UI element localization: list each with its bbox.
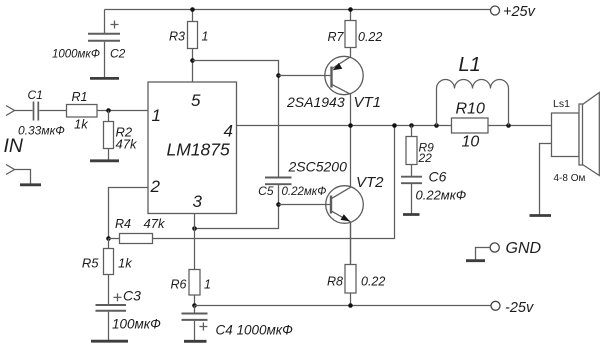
- svg-text:VT2: VT2: [356, 174, 384, 191]
- ground (below R2): [90, 159, 119, 162]
- svg-text:R4: R4: [115, 217, 131, 231]
- svg-text:0.33мкФ: 0.33мкФ: [18, 124, 65, 138]
- resistor R2 47k: [104, 111, 138, 161]
- resistor R4 47k: [109, 216, 166, 244]
- wire VT2 collector to output: [350, 126, 352, 188]
- resistor R7 0.22: [328, 10, 383, 57]
- node output/L1 right: [506, 123, 511, 128]
- ground (GND terminal): [466, 259, 485, 262]
- resistor R9 22: [406, 126, 434, 177]
- node VT1 base tap: [276, 73, 281, 78]
- svg-text:0.22: 0.22: [361, 275, 385, 289]
- node junction below R3: [190, 58, 195, 63]
- svg-text:1k: 1k: [118, 256, 133, 271]
- wire output line pin4 to speaker: [237, 125, 552, 127]
- svg-text:2SA1943: 2SA1943: [286, 94, 345, 110]
- svg-text:VT1: VT1: [354, 94, 382, 111]
- node pin3 tee: [192, 226, 197, 231]
- resistor R3 1: [169, 10, 208, 61]
- node R6/C4/-25v rail: [192, 303, 197, 308]
- wire pin5 stem: [192, 61, 194, 83]
- ground (input return): [20, 183, 41, 186]
- capacitor C6 0.22мкФ: [401, 169, 466, 214]
- svg-text:0.22мкФ: 0.22мкФ: [282, 186, 327, 198]
- svg-text:R5: R5: [82, 256, 99, 271]
- wire speaker return: [540, 144, 552, 215]
- node VT2 base tap: [276, 202, 281, 207]
- svg-text:2SC5200: 2SC5200: [288, 159, 348, 175]
- wire pin2 to feedback node: [109, 188, 149, 239]
- capacitor C2 1000мкФ: [52, 10, 126, 78]
- ground (speaker): [530, 214, 552, 217]
- node R8/-25v rail: [348, 303, 353, 308]
- node output/L1 left: [434, 123, 439, 128]
- svg-text:1: 1: [204, 278, 211, 292]
- ground (below C2): [90, 77, 119, 80]
- svg-text:0.22мкФ: 0.22мкФ: [416, 188, 467, 203]
- svg-text:1000мкФ: 1000мкФ: [52, 49, 100, 61]
- svg-text:5: 5: [191, 91, 201, 110]
- svg-text:47k: 47k: [144, 216, 166, 231]
- svg-text:GND: GND: [506, 240, 542, 257]
- node output/VT collectors: [348, 123, 353, 128]
- wire C1 to R1: [39, 110, 66, 112]
- wire C5 bottom to pin3 node: [195, 185, 279, 229]
- speaker Ls1: [552, 93, 600, 185]
- ground (below C3): [91, 340, 128, 343]
- wire pin5 node to bases riser: [193, 61, 279, 178]
- terminal -25v: [491, 301, 500, 310]
- node R1/R2 junction: [106, 108, 111, 113]
- input arrow (return): [6, 165, 15, 175]
- node R7/+25v rail: [348, 7, 353, 12]
- svg-text:L1: L1: [459, 54, 481, 76]
- svg-text:C2: C2: [110, 47, 126, 61]
- svg-text:+25v: +25v: [503, 4, 536, 20]
- node output/feedback riser: [392, 123, 397, 128]
- svg-text:2: 2: [150, 177, 161, 196]
- wire input return: [15, 170, 31, 184]
- inductor L1: [437, 54, 509, 126]
- svg-text:4: 4: [224, 122, 233, 141]
- svg-text:22: 22: [418, 151, 433, 165]
- resistor R1 1k: [67, 90, 98, 132]
- wire VT1 base: [279, 75, 332, 77]
- capacitor C5 0.22мкФ: [258, 178, 326, 199]
- svg-text:IN: IN: [4, 135, 24, 157]
- svg-text:1: 1: [152, 106, 161, 125]
- svg-text:R6: R6: [171, 278, 187, 292]
- svg-text:4-8 Ом: 4-8 Ом: [554, 173, 586, 184]
- wire pin3 stem: [194, 214, 196, 270]
- svg-text:R10: R10: [456, 101, 485, 118]
- svg-text:-25v: -25v: [505, 300, 534, 316]
- resistor R6 1: [171, 270, 211, 306]
- capacitor C1 0.33мкФ: [18, 88, 65, 138]
- wire VT1 collector to output: [350, 94, 352, 125]
- resistor R5 1k: [82, 239, 133, 305]
- terminal GND: [476, 240, 542, 260]
- ground (below C4): [184, 340, 207, 343]
- svg-text:C3: C3: [123, 288, 141, 304]
- svg-text:47k: 47k: [116, 137, 138, 152]
- node pin2/R4/R5 junction: [106, 236, 111, 241]
- svg-text:1k: 1k: [74, 117, 89, 132]
- svg-text:Ls1: Ls1: [553, 98, 570, 110]
- svg-text:10: 10: [462, 134, 480, 151]
- wire R1 to pin1: [97, 110, 148, 112]
- op-amp U1 LM1875 body: [148, 82, 237, 214]
- transistor VT2 2SC5200: [288, 159, 385, 224]
- svg-text:0.22: 0.22: [358, 30, 382, 44]
- svg-text:LM1875: LM1875: [167, 140, 231, 160]
- svg-text:C4 1000мкФ: C4 1000мкФ: [216, 323, 294, 338]
- input arrow IN: [6, 106, 15, 116]
- svg-text:R1: R1: [72, 90, 88, 104]
- svg-text:C6: C6: [429, 169, 447, 185]
- ground (below C6): [403, 213, 420, 216]
- resistor R10 10: [452, 101, 489, 151]
- svg-text:R3: R3: [169, 30, 185, 44]
- svg-text:3: 3: [193, 192, 203, 211]
- wire VT2 emitter to R8: [350, 222, 352, 265]
- wire VT2 base: [279, 204, 332, 206]
- svg-text:R7: R7: [328, 30, 345, 44]
- node output/R9: [409, 123, 414, 128]
- resistor R8 0.22: [327, 222, 385, 306]
- svg-text:C1: C1: [28, 88, 43, 102]
- svg-text:1: 1: [202, 30, 209, 44]
- node junction R3/+25v rail: [190, 7, 195, 12]
- wire feedback R4 to output riser: [153, 126, 395, 239]
- svg-text:100мкФ: 100мкФ: [112, 316, 161, 331]
- capacitor C3 100мкФ: [96, 288, 162, 341]
- svg-text:C5: C5: [258, 184, 274, 198]
- terminal +25v: [491, 6, 500, 15]
- wire input to C1: [15, 110, 33, 112]
- transistor VT1 2SA1943: [286, 56, 381, 111]
- wire -25v rail: [195, 305, 492, 307]
- wire +25v top rail: [105, 9, 491, 11]
- capacitor C4 1000мкФ: [182, 306, 294, 341]
- svg-text:R8: R8: [327, 275, 343, 289]
